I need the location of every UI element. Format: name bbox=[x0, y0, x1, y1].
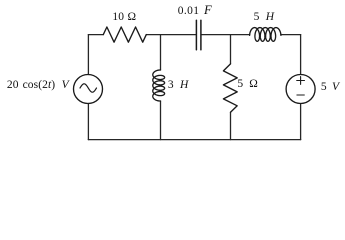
wire left-lower bbox=[87, 104, 89, 140]
label 5 H of L1 bbox=[254, 12, 275, 24]
capacitor C1 0.01F left plate bbox=[195, 20, 197, 49]
dc source V2 plus sign bbox=[297, 77, 305, 85]
wire top-left horizontal bbox=[88, 34, 103, 36]
label 5 Ohm of R2 bbox=[237, 79, 258, 91]
wire left-upper bbox=[87, 35, 89, 75]
wire branch2-lower bbox=[230, 112, 232, 139]
wire bottom bbox=[88, 139, 300, 141]
inductor L2 3H coil bbox=[153, 70, 165, 101]
wire branch1-upper bbox=[160, 35, 162, 70]
label 5 V of source V2 bbox=[321, 82, 339, 94]
capacitor C1 0.01F right plate bbox=[200, 20, 202, 49]
resistor R2 5ohm zigzag vertical bbox=[223, 64, 237, 112]
ac source V1 circle bbox=[74, 75, 103, 104]
label 0.01 F of C1 bbox=[178, 4, 212, 18]
wire branch1-lower bbox=[160, 101, 162, 140]
dc source V2 circle bbox=[286, 75, 315, 104]
label 3 H of L2 bbox=[168, 80, 189, 92]
label 10 Ohm of R1 bbox=[112, 12, 136, 24]
wire right-lower bbox=[300, 104, 302, 140]
ac source V1 sine symbol bbox=[80, 84, 97, 92]
label 20 cos(2t) V of source V1 bbox=[7, 80, 69, 92]
wire branch2-upper bbox=[230, 35, 232, 64]
wire inductor-to-top-right-corner bbox=[281, 34, 301, 36]
dc source V2 minus sign bbox=[297, 94, 304, 96]
resistor R1 10ohm zigzag bbox=[103, 27, 146, 42]
inductor L1 5H coil bbox=[250, 28, 281, 42]
wire resistor-to-capacitor bbox=[146, 34, 195, 36]
wire capacitor-to-inductor bbox=[202, 34, 250, 36]
wire right-upper bbox=[300, 35, 302, 75]
